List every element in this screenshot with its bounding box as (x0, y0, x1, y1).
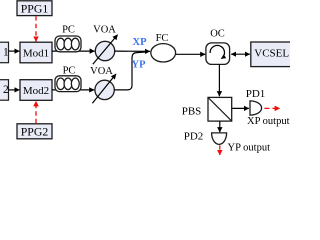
svg-text:FC: FC (156, 33, 169, 44)
svg-text:VCSEL: VCSEL (254, 48, 289, 60)
svg-text:PD2: PD2 (184, 131, 204, 143)
svg-text:VOA: VOA (93, 25, 116, 36)
svg-text:PD1: PD1 (246, 88, 266, 100)
svg-text:1: 1 (3, 47, 9, 59)
svg-text:PC: PC (63, 65, 76, 76)
svg-text:PBS: PBS (182, 106, 202, 118)
svg-text:PPG2: PPG2 (21, 125, 49, 139)
svg-text:YP: YP (132, 60, 147, 71)
svg-text:VOA: VOA (90, 66, 113, 77)
svg-text:2: 2 (3, 84, 9, 96)
svg-text:PPG1: PPG1 (21, 1, 49, 15)
svg-text:OC: OC (210, 29, 225, 40)
svg-text:XP output: XP output (247, 116, 290, 127)
svg-text:XP: XP (133, 37, 148, 48)
svg-text:Mod1: Mod1 (23, 47, 49, 59)
svg-text:Mod2: Mod2 (23, 85, 49, 97)
svg-text:YP output: YP output (228, 143, 271, 154)
svg-text:PC: PC (62, 25, 75, 36)
